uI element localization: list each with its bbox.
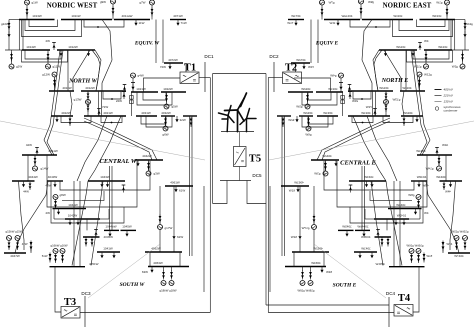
transformer bbox=[162, 271, 165, 280]
wire tie 4062-4063 a bbox=[149, 252, 151, 267]
svg-text:DC1: DC1 bbox=[204, 54, 214, 59]
generator g15bW bbox=[7, 236, 12, 241]
generator g4W bbox=[131, 73, 144, 78]
wire U-link bbox=[84, 20, 124, 28]
svg-text:NORTH E: NORTH E bbox=[381, 78, 409, 84]
transformer bbox=[29, 182, 32, 190]
svg-text:130 kV: 130 kV bbox=[444, 100, 454, 104]
busbar 4022W bbox=[51, 111, 73, 116]
busbar 1041W bbox=[97, 246, 120, 252]
load 11W bbox=[134, 20, 144, 26]
shunt g4W tap bbox=[131, 82, 135, 84]
busbar 4031W bbox=[136, 111, 157, 116]
svg-text:1044W: 1044W bbox=[68, 203, 78, 207]
wire T2 ac connector bbox=[294, 77, 302, 79]
busbar 4045W bbox=[83, 235, 113, 239]
busbar 4041W bbox=[22, 149, 58, 155]
svg-text:DC5: DC5 bbox=[252, 173, 262, 178]
generator g16W bbox=[60, 249, 65, 254]
generator g12W bbox=[42, 72, 57, 77]
breaker box B bbox=[130, 100, 134, 104]
transformer bbox=[190, 117, 193, 127]
load 71W bbox=[176, 20, 186, 26]
busbar 4063W bbox=[148, 261, 189, 267]
svg-text:1045W: 1045W bbox=[122, 225, 132, 229]
svg-text:T4: T4 bbox=[398, 293, 411, 304]
generator g18bW bbox=[161, 281, 166, 286]
wind turbine 2 bbox=[225, 93, 247, 132]
busbar 1044W bbox=[53, 203, 87, 208]
wire line CS1 bbox=[15, 181, 48, 253]
svg-text:220 kV: 220 kV bbox=[443, 94, 454, 98]
busbar 4032W bbox=[161, 111, 175, 116]
wire T2 dc out bbox=[268, 77, 282, 79]
wire line N6 bbox=[73, 50, 90, 91]
wire dc4 feeder bbox=[266, 304, 389, 306]
wire turbine collector bbox=[239, 132, 241, 147]
busbar 4021W bbox=[84, 111, 126, 116]
transformer bbox=[87, 92, 90, 100]
converter transformer T5 bbox=[234, 147, 247, 167]
generator g11W bbox=[46, 64, 61, 69]
wire T1 ac link bbox=[144, 78, 181, 92]
converter transformer T2 bbox=[283, 72, 302, 84]
junction bbox=[111, 98, 113, 100]
svg-text:g1W: g1W bbox=[32, 1, 38, 5]
shunt 42W bbox=[26, 143, 39, 155]
wire U-link bbox=[143, 92, 166, 100]
wire line CS2 bbox=[72, 181, 88, 266]
svg-text:1012W: 1012W bbox=[68, 45, 78, 49]
wire ladder L1 bbox=[60, 161, 150, 190]
wire T3 dc out bbox=[80, 312, 210, 314]
wire 47W stub bbox=[30, 250, 32, 253]
wire U-link bbox=[29, 20, 58, 27]
transformer bbox=[54, 200, 57, 210]
svg-text:63W: 63W bbox=[142, 270, 148, 274]
svg-text:4063W: 4063W bbox=[153, 261, 163, 265]
wire line N2 bbox=[102, 20, 112, 92]
shunt bbox=[122, 185, 126, 193]
load 63W bbox=[142, 267, 154, 275]
busbar 4071W bbox=[170, 14, 186, 19]
svg-text:T3: T3 bbox=[64, 297, 76, 308]
load 2W bbox=[46, 209, 61, 215]
transformer bbox=[26, 8, 29, 17]
generator g13W bbox=[74, 98, 91, 105]
svg-text:NORTH W: NORTH W bbox=[68, 79, 97, 85]
svg-text:4011W: 4011W bbox=[62, 86, 71, 90]
busbar 4051W bbox=[50, 262, 99, 267]
wire corridor D bbox=[79, 181, 81, 267]
wire 4012W shunt stub bbox=[123, 91, 125, 94]
busbar 1043W bbox=[88, 175, 125, 181]
svg-text:g8W: g8W bbox=[60, 193, 66, 197]
wire bus extension bbox=[9, 19, 19, 21]
legend synchronous condenser bbox=[435, 105, 461, 112]
generator g9W bbox=[100, 0, 116, 4]
svg-text:1021W: 1021W bbox=[136, 87, 146, 91]
wire ladder L2 bbox=[47, 161, 137, 207]
load arrow bbox=[59, 50, 62, 56]
svg-text:22W: 22W bbox=[116, 99, 122, 103]
wire U-link bbox=[22, 20, 82, 37]
svg-text:4012W: 4012W bbox=[85, 86, 95, 90]
svg-text:g22W: g22W bbox=[1, 22, 9, 26]
wire 1042W ext R bbox=[100, 218, 109, 220]
transformer bbox=[8, 241, 11, 250]
load arrow bbox=[87, 50, 90, 56]
load 61W bbox=[174, 186, 185, 193]
svg-text:g17W: g17W bbox=[165, 226, 173, 230]
wire equiv tie A bbox=[155, 20, 157, 64]
wire U-link bbox=[146, 116, 172, 127]
transformer bbox=[159, 215, 162, 224]
wire T4 dc in bbox=[268, 312, 394, 314]
wire line NC1 bbox=[84, 118, 157, 160]
wire ladder L3 bbox=[51, 181, 124, 223]
node DC3 line bbox=[84, 296, 86, 327]
junction bbox=[111, 122, 113, 124]
legend 130 kV bbox=[435, 100, 454, 104]
busbar 1042W bbox=[65, 214, 100, 220]
svg-text:1013W: 1013W bbox=[32, 14, 42, 18]
svg-text:EQUIV E: EQUIV E bbox=[315, 41, 339, 47]
wire corridor E bbox=[203, 186, 205, 292]
wire dc rail E-B bbox=[265, 74, 267, 306]
svg-text:g3W: g3W bbox=[154, 172, 160, 176]
wire rowA-rowB tie a bbox=[98, 91, 100, 116]
load 72W bbox=[160, 63, 172, 69]
shunt bbox=[94, 230, 98, 238]
load arrow bbox=[106, 181, 109, 187]
svg-text:T1: T1 bbox=[184, 63, 196, 74]
transformer bbox=[10, 53, 13, 62]
wire corridor C bbox=[73, 181, 75, 267]
svg-text:2W: 2W bbox=[46, 211, 51, 215]
svg-text:1014W: 1014W bbox=[26, 45, 36, 49]
wire g5W stem bbox=[166, 92, 168, 104]
svg-text:CENTRAL E: CENTRAL E bbox=[340, 160, 376, 167]
wire ladder rung 1 bbox=[62, 191, 104, 200]
wire dc link top bbox=[213, 73, 266, 75]
transformer bbox=[8, 22, 11, 31]
svg-text:1011W: 1011W bbox=[71, 14, 80, 18]
busbar 4012W bbox=[81, 86, 126, 91]
busbar 4031bW bbox=[183, 115, 197, 117]
svg-text:72W: 72W bbox=[160, 65, 166, 69]
wire g4W stem bbox=[132, 78, 134, 92]
svg-text:42W: 42W bbox=[26, 143, 32, 147]
svg-text:1044bW: 1044bW bbox=[105, 225, 116, 229]
wire T1 dc out bbox=[199, 77, 210, 79]
generator g5W bbox=[164, 104, 178, 109]
svg-text:CENTRAL W: CENTRAL W bbox=[99, 158, 137, 165]
svg-text:condenser: condenser bbox=[444, 109, 458, 113]
transformer bbox=[69, 117, 72, 126]
wire line CS3 bbox=[91, 181, 103, 266]
wire 62W stem bbox=[173, 186, 175, 233]
wire rowA-rowB tie b bbox=[101, 91, 103, 116]
wire line N4b bbox=[47, 50, 63, 155]
svg-text:T5: T5 bbox=[249, 154, 261, 165]
busbar 4011W bbox=[49, 86, 74, 91]
svg-text:g13W: g13W bbox=[74, 98, 82, 102]
load arrow bbox=[76, 219, 79, 225]
generator g16bW bbox=[53, 249, 58, 254]
wire corridor A bbox=[189, 116, 191, 256]
transformer bbox=[61, 254, 64, 264]
generator g18W bbox=[169, 281, 174, 286]
busbar 1022W bbox=[161, 87, 186, 92]
wire tie 4062-4063 b bbox=[179, 252, 181, 267]
wire 4041W tie a bbox=[27, 155, 29, 181]
svg-text:1041W: 1041W bbox=[103, 246, 113, 250]
wire tie 1042-1045 bbox=[86, 219, 88, 230]
wire 62W down bbox=[173, 239, 175, 252]
wire g18 stem b bbox=[171, 267, 173, 272]
wire tie 1044-1042 bbox=[53, 209, 55, 219]
wire dc rail W-B bbox=[212, 74, 214, 204]
transformer bbox=[49, 253, 52, 263]
shunt 2W bbox=[46, 39, 56, 50]
wire U-link bbox=[22, 50, 68, 62]
load 62W bbox=[172, 233, 183, 239]
node DC1 bus bbox=[204, 62, 206, 92]
wire region divider north-central bbox=[0, 121, 205, 160]
wire dc5 west step bbox=[213, 181, 227, 204]
svg-text:51W: 51W bbox=[42, 254, 48, 258]
wire g7W stem bbox=[151, 5, 153, 20]
wire g13W stem bbox=[87, 91, 89, 116]
wind farm ground line bbox=[221, 131, 254, 133]
breaker box A bbox=[130, 96, 134, 100]
wire T4 ac in bbox=[413, 267, 419, 312]
generator g2W bbox=[9, 64, 22, 69]
busbar 4061W bbox=[165, 181, 193, 186]
load g22W bbox=[1, 22, 11, 37]
busbar 4072W bbox=[164, 58, 183, 63]
shunt bbox=[123, 85, 127, 93]
east network (mirrored copy of west) bbox=[269, 0, 474, 298]
node DC4 line bbox=[388, 297, 390, 327]
svg-text:g12W: g12W bbox=[42, 73, 50, 77]
busbar 1012W bbox=[57, 45, 95, 50]
wire equiv tie B bbox=[162, 20, 164, 64]
svg-text:62W: 62W bbox=[177, 235, 183, 239]
transformer bbox=[91, 238, 94, 247]
transformer bbox=[30, 241, 33, 252]
svg-text:DC3: DC3 bbox=[81, 291, 91, 296]
svg-text:g2W: g2W bbox=[16, 65, 22, 69]
transformer bbox=[16, 241, 19, 250]
wire g3W stem bbox=[148, 160, 150, 171]
busbar 1013W bbox=[19, 14, 55, 19]
svg-text:SOUTH W: SOUTH W bbox=[120, 282, 146, 288]
wire U-link bbox=[141, 116, 166, 124]
svg-text:4031W: 4031W bbox=[141, 111, 151, 115]
wire region divider south bbox=[88, 244, 160, 298]
transformer bbox=[54, 254, 57, 264]
load arrow bbox=[125, 230, 128, 236]
wire dc rail E-A bbox=[267, 78, 269, 313]
converter transformer T3 bbox=[61, 307, 80, 319]
wire dc rail W-A bbox=[209, 78, 211, 313]
svg-text:4072W: 4072W bbox=[168, 58, 178, 62]
transformer bbox=[112, 7, 115, 16]
svg-text:1042W: 1042W bbox=[68, 214, 78, 218]
wire g6W stem bbox=[165, 116, 167, 126]
wire corridor F bbox=[109, 166, 111, 230]
svg-text:4071W: 4071W bbox=[173, 14, 183, 18]
wire g1W stem bbox=[26, 5, 28, 20]
svg-text:g16bW g16W: g16bW g16W bbox=[51, 244, 68, 248]
wire 1013W-1014W tie b bbox=[22, 20, 24, 51]
svg-text:4041W: 4041W bbox=[48, 149, 58, 153]
shunt 72W bbox=[97, 105, 108, 116]
load arrow bbox=[100, 181, 103, 187]
svg-text:4043W: 4043W bbox=[48, 175, 58, 179]
node DC2 bus bbox=[273, 62, 275, 92]
wire U-link bbox=[137, 92, 172, 105]
wire 4041W tie b bbox=[46, 155, 48, 181]
transformer bbox=[147, 162, 150, 171]
svg-text:EQUIV. W: EQUIV. W bbox=[134, 41, 160, 47]
wire U-link bbox=[103, 91, 121, 99]
svg-text:4061W: 4061W bbox=[170, 181, 180, 185]
load arrow bbox=[68, 219, 71, 225]
svg-text:71W: 71W bbox=[181, 21, 187, 25]
svg-text:11W: 11W bbox=[139, 21, 145, 25]
svg-text:DC4: DC4 bbox=[386, 291, 396, 296]
busbar 4047W bbox=[4, 253, 26, 258]
transformer bbox=[47, 53, 50, 62]
svg-text:g5W: g5W bbox=[172, 105, 178, 109]
wire line N4 bbox=[44, 50, 60, 155]
busbar 4062W bbox=[145, 246, 182, 252]
transformer bbox=[34, 157, 37, 166]
junction bbox=[97, 26, 99, 28]
wire T3 ac in bbox=[55, 267, 61, 312]
busbar 4044W bbox=[12, 175, 38, 181]
svg-text:61W: 61W bbox=[179, 189, 185, 193]
converter transformer T4 bbox=[394, 305, 413, 317]
svg-text:g6W: g6W bbox=[162, 133, 168, 137]
wire g2W stem bbox=[11, 50, 13, 64]
busbar 1021W bbox=[131, 87, 158, 92]
wire line NC2 bbox=[84, 121, 152, 160]
generator g8W bbox=[53, 193, 66, 200]
busbar 1045W bbox=[121, 225, 137, 231]
svg-text:4051W: 4051W bbox=[89, 262, 99, 266]
wire g9W stem bbox=[112, 4, 114, 20]
svg-text:1043W: 1043W bbox=[100, 175, 110, 179]
wire tie rung2 bbox=[108, 209, 110, 219]
wind turbine 3 bbox=[240, 109, 256, 132]
wind turbine 1 bbox=[219, 106, 235, 132]
busbar 4042W bbox=[135, 154, 163, 160]
svg-text:4047W: 4047W bbox=[10, 254, 20, 258]
busbar 1044bW bbox=[104, 225, 119, 231]
wire 1042W ext L bbox=[54, 218, 65, 220]
wire line NC3 bbox=[77, 116, 107, 181]
busbar 4043W bbox=[47, 175, 63, 181]
load arrow bbox=[22, 181, 25, 187]
svg-text:g11W: g11W bbox=[53, 65, 61, 69]
wire line N3 bbox=[92, 50, 100, 91]
converter transformer T1 bbox=[180, 72, 199, 84]
transformer bbox=[151, 8, 154, 17]
svg-text:47W: 47W bbox=[22, 242, 28, 246]
svg-text:32W: 32W bbox=[180, 118, 186, 122]
wire U-link bbox=[61, 116, 91, 123]
wire U-link bbox=[25, 20, 75, 31]
transformer bbox=[165, 94, 168, 103]
svg-text:4021W: 4021W bbox=[103, 111, 113, 115]
wire left tie bbox=[8, 20, 10, 51]
wire corridor B bbox=[191, 116, 193, 256]
busbar 4011aW bbox=[114, 14, 150, 19]
svg-text:g4W: g4W bbox=[138, 74, 144, 78]
generator g3W bbox=[146, 171, 160, 176]
load 32W bbox=[175, 116, 185, 122]
wire line N5 bbox=[70, 91, 72, 116]
shunt bbox=[122, 92, 126, 100]
wire g18 stem a bbox=[163, 267, 165, 272]
wire T2 bus stub bbox=[295, 63, 297, 72]
transformer bbox=[53, 79, 56, 88]
svg-text:4011aW: 4011aW bbox=[122, 14, 133, 18]
transformer bbox=[164, 117, 167, 126]
load arrow bbox=[100, 252, 103, 258]
svg-text:SOUTH E: SOUTH E bbox=[333, 283, 357, 289]
load arrow bbox=[136, 160, 139, 166]
busbar 1014W bbox=[22, 45, 50, 50]
load 43W bbox=[45, 181, 56, 188]
wire line N1 bbox=[95, 50, 101, 91]
svg-text:2W: 2W bbox=[46, 39, 51, 43]
wire T5 out bbox=[239, 167, 241, 181]
generator g14W bbox=[33, 166, 49, 171]
svg-text:DC2: DC2 bbox=[269, 54, 279, 59]
svg-text:44W: 44W bbox=[23, 190, 29, 194]
busbar 1011W bbox=[61, 14, 112, 19]
svg-text:NORDIC WEST: NORDIC WEST bbox=[47, 3, 98, 10]
wire dc5 east step bbox=[247, 181, 266, 204]
wire 1012W-4011W tie bbox=[67, 50, 69, 91]
legend 400 kV bbox=[435, 88, 454, 92]
svg-text:g7W: g7W bbox=[139, 1, 145, 5]
generator g7W bbox=[139, 0, 154, 5]
load arrow bbox=[112, 252, 115, 258]
svg-text:72W: 72W bbox=[102, 105, 108, 109]
svg-text:NORDIC EAST: NORDIC EAST bbox=[383, 3, 432, 10]
wire g12W stem bbox=[54, 77, 56, 91]
svg-text:4042W: 4042W bbox=[142, 154, 152, 158]
load arrow bbox=[55, 116, 58, 122]
svg-text:400 kV: 400 kV bbox=[444, 88, 454, 92]
wire T1 bus stub bbox=[185, 63, 187, 72]
load arrow bbox=[108, 230, 111, 236]
wire g17W stem bbox=[159, 186, 161, 225]
svg-text:T2: T2 bbox=[285, 63, 297, 74]
load arrow bbox=[131, 84, 134, 90]
generator g17W bbox=[158, 225, 173, 231]
wire 1014W ext bbox=[5, 49, 22, 51]
svg-text:4045W: 4045W bbox=[104, 235, 114, 239]
transformer bbox=[85, 238, 88, 247]
wire g17W down bbox=[159, 230, 161, 253]
